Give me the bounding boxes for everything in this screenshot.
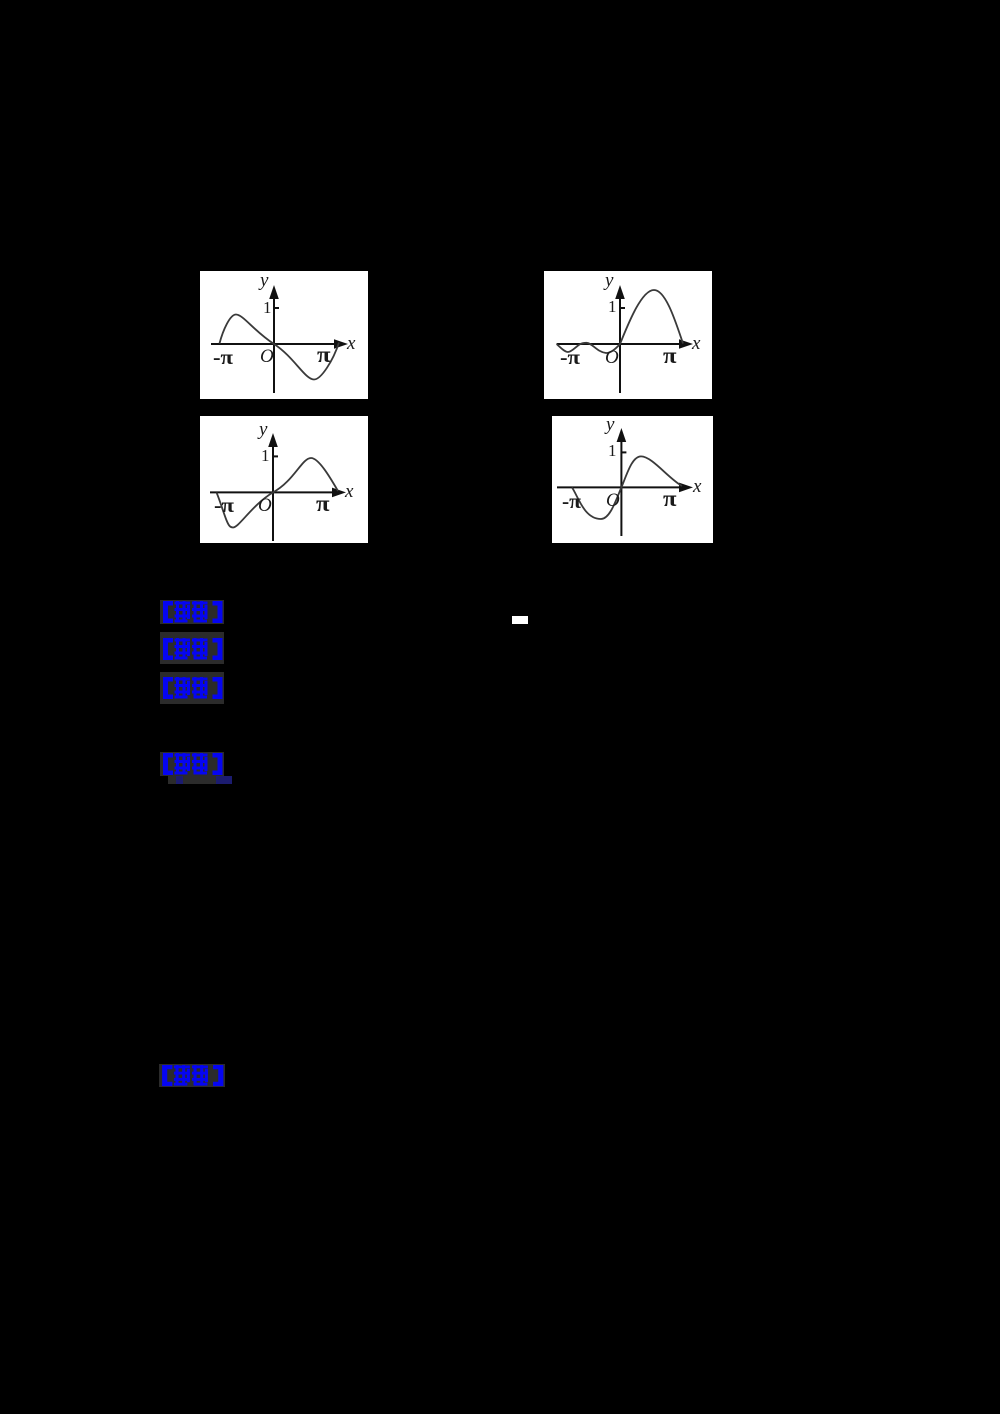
svg-text:1: 1 [608, 297, 617, 316]
svg-text:x: x [346, 333, 356, 354]
svg-text:y: y [258, 271, 269, 291]
svg-text:-π: -π [560, 345, 581, 369]
svg-text:π: π [663, 343, 677, 368]
svg-text:x: x [692, 476, 702, 497]
svg-text:1: 1 [263, 298, 272, 317]
svg-text:1: 1 [608, 441, 617, 460]
svg-text:x: x [691, 333, 701, 354]
svg-text:π: π [317, 342, 331, 367]
svg-text:-π: -π [562, 489, 582, 513]
svg-text:O: O [260, 346, 274, 367]
svg-text:x: x [344, 481, 354, 502]
svg-text:O: O [606, 490, 620, 511]
svg-text:-π: -π [214, 493, 235, 517]
svg-text:-π: -π [213, 345, 234, 369]
svg-text:y: y [604, 416, 615, 435]
svg-text:y: y [603, 271, 614, 291]
svg-text:y: y [257, 419, 268, 440]
svg-text:O: O [605, 347, 619, 368]
svg-text:O: O [258, 495, 272, 516]
svg-text:1: 1 [261, 446, 270, 465]
svg-text:π: π [316, 491, 330, 516]
svg-text:π: π [663, 486, 677, 511]
